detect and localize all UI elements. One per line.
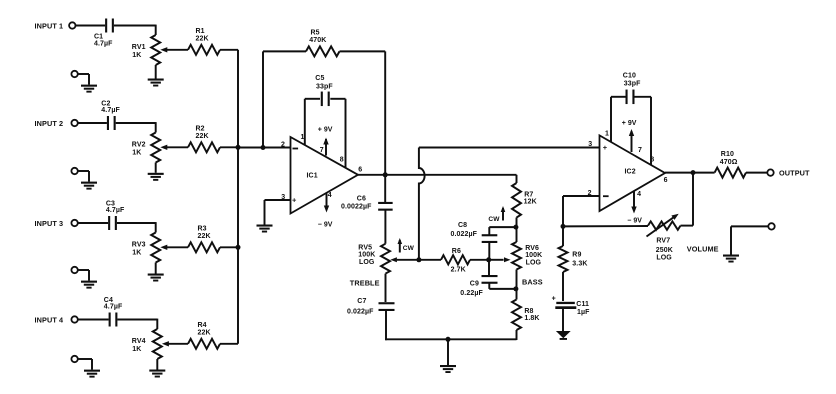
svg-text:+ 9V: + 9V [318, 127, 333, 134]
svg-text:R4: R4 [198, 322, 207, 329]
capacitor C6 0.0022uF [384, 175, 386, 203]
svg-text:4.7µF: 4.7µF [94, 41, 113, 48]
wire [78, 122, 107, 124]
svg-text:22K: 22K [198, 233, 211, 240]
svg-text:3: 3 [588, 141, 592, 148]
capacitor C9 0.22uF [488, 260, 490, 276]
output terminal [767, 169, 773, 175]
node B [513, 286, 518, 291]
svg-text:RV7: RV7 [656, 238, 670, 245]
svg-text:INPUT 1: INPUT 1 [35, 22, 64, 31]
ground terminal [71, 356, 77, 362]
svg-text:− 9V: − 9V [318, 222, 333, 229]
wire summing bus [237, 50, 239, 344]
resistor R9 3.3K [562, 226, 564, 246]
capacitor C5 33pF [305, 98, 320, 100]
svg-text:OUTPUT: OUTPUT [779, 169, 810, 178]
ground terminal output [768, 223, 774, 229]
supply -9V IC2 [633, 192, 635, 212]
node A [513, 225, 518, 230]
svg-text:7: 7 [638, 147, 642, 154]
svg-text:1K: 1K [132, 52, 141, 59]
svg-text:R2: R2 [196, 125, 205, 132]
potentiometer RV2 1K [151, 133, 160, 163]
ground [447, 339, 449, 365]
svg-text:BASS: BASS [522, 277, 543, 286]
resistor R2 22K [188, 142, 220, 152]
wire IC2 output [665, 172, 715, 174]
svg-text:LOG: LOG [656, 255, 672, 262]
capacitor C3 [108, 216, 110, 230]
ground terminal [71, 267, 77, 273]
capacitor C1 [105, 19, 107, 33]
svg-text:C5: C5 [315, 75, 324, 82]
minus sign IC2 [603, 195, 609, 197]
svg-text:RV5: RV5 [358, 244, 372, 251]
svg-text:0.22µF: 0.22µF [460, 290, 483, 297]
resistor R7 12K [516, 175, 518, 183]
svg-text:R5: R5 [311, 30, 320, 37]
svg-text:470Ω: 470Ω [720, 159, 738, 166]
svg-text:C7: C7 [357, 298, 366, 305]
svg-text:33pF: 33pF [316, 83, 333, 90]
svg-text:8: 8 [340, 157, 344, 164]
wire bottom bus [385, 338, 516, 340]
potentiometer RV7 250K LOG volume [563, 225, 648, 227]
wire [78, 222, 108, 224]
svg-text:C11: C11 [576, 301, 589, 308]
capacitor C7 0.022uF [385, 274, 387, 302]
ground [148, 173, 164, 175]
cw arrow RV5 [399, 240, 401, 253]
ground [257, 225, 273, 227]
wire to IC1 pin 2 [238, 147, 291, 149]
resistor R6 2.7K [419, 259, 441, 261]
wire [114, 25, 156, 27]
svg-text:+ 9V: + 9V [622, 120, 637, 127]
potentiometer RV5 100K LOG treble [381, 244, 390, 274]
svg-text:1: 1 [605, 131, 609, 138]
svg-text:LOG: LOG [359, 259, 375, 266]
supply -9V IC1 [326, 194, 328, 211]
svg-text:− 9V: − 9V [627, 218, 642, 225]
svg-text:6: 6 [664, 177, 668, 184]
svg-text:+: + [603, 143, 608, 152]
svg-text:7: 7 [320, 147, 324, 154]
svg-text:C10: C10 [623, 72, 636, 79]
svg-text:4.7µF: 4.7µF [106, 207, 125, 214]
svg-text:22K: 22K [196, 133, 209, 140]
svg-text:1.8K: 1.8K [524, 315, 539, 322]
svg-text:TREBLE: TREBLE [350, 278, 380, 287]
ground terminal [71, 168, 77, 174]
svg-text:RV6: RV6 [525, 245, 539, 252]
svg-text:R1: R1 [196, 28, 205, 35]
potentiometer RV1 1K [151, 35, 160, 65]
wire [76, 25, 106, 27]
capacitor C8 0.022uF [489, 226, 516, 228]
svg-text:0.022µF: 0.022µF [451, 231, 478, 238]
svg-text:R7: R7 [524, 192, 533, 199]
svg-text:R10: R10 [721, 151, 734, 158]
svg-text:22K: 22K [198, 329, 211, 336]
minus sign IC1 [293, 148, 299, 150]
svg-text:CW: CW [403, 245, 415, 252]
ground [149, 370, 165, 372]
svg-text:4.7µF: 4.7µF [104, 304, 123, 311]
svg-text:C1: C1 [94, 34, 103, 41]
svg-text:IC2: IC2 [625, 169, 636, 176]
wire treble wiper to IC2 pin 3 [419, 147, 600, 149]
capacitor C2 [107, 116, 109, 130]
op-amp IC1 [291, 137, 359, 214]
svg-text:12K: 12K [524, 199, 537, 206]
svg-text:INPUT 3: INPUT 3 [35, 219, 64, 228]
resistor R5 470K [262, 51, 264, 147]
resistor R3 22K [188, 242, 220, 252]
potentiometer RV6 100K LOG bass [516, 227, 518, 242]
svg-text:0.0022µF: 0.0022µF [341, 204, 372, 211]
svg-text:4.7µF: 4.7µF [101, 107, 120, 114]
svg-text:100K: 100K [525, 252, 542, 259]
ground [148, 274, 164, 276]
svg-text:C8: C8 [458, 222, 467, 229]
svg-text:R9: R9 [572, 251, 581, 258]
capacitor C10 33pF [611, 96, 626, 98]
svg-text:22K: 22K [196, 35, 209, 42]
ground [723, 255, 739, 257]
wire IC1 pin 3 [265, 199, 291, 201]
svg-text:RV4: RV4 [132, 338, 146, 345]
ground [148, 79, 164, 81]
resistor R10 470 [715, 168, 746, 178]
svg-text:3.3K: 3.3K [572, 261, 587, 268]
svg-text:C6: C6 [357, 195, 366, 202]
potentiometer RV4 1K [153, 329, 162, 359]
wire [117, 319, 157, 321]
svg-text:2: 2 [281, 141, 285, 148]
svg-text:2.7K: 2.7K [451, 266, 466, 273]
svg-text:100K: 100K [358, 252, 375, 259]
ground terminal [71, 71, 77, 77]
resistor R4 22K [188, 339, 220, 349]
svg-text:INPUT 4: INPUT 4 [35, 316, 65, 325]
svg-text:+: + [292, 195, 297, 204]
supply +9V IC2 [631, 131, 633, 152]
wire [78, 319, 109, 321]
svg-text:250K: 250K [656, 247, 673, 254]
node wiper junction [486, 257, 491, 262]
ground [556, 331, 571, 338]
ground [84, 370, 100, 372]
svg-text:4: 4 [328, 192, 332, 199]
svg-text:INPUT 2: INPUT 2 [35, 119, 64, 128]
svg-text:CW: CW [488, 216, 500, 223]
supply +9V IC1 [325, 139, 327, 156]
svg-text:LOG: LOG [526, 260, 542, 267]
capacitor C4 [109, 313, 111, 327]
resistor R1 22K [188, 45, 220, 55]
svg-text:1µF: 1µF [577, 309, 590, 316]
svg-text:470K: 470K [309, 37, 326, 44]
potentiometer RV3 1K [151, 233, 160, 263]
svg-text:RV1: RV1 [132, 44, 146, 51]
capacitor C11 1uF [556, 302, 575, 304]
svg-text:R3: R3 [198, 225, 207, 232]
cw arrow RV6 [502, 208, 504, 221]
svg-text:1K: 1K [132, 250, 141, 257]
op-amp IC2 [600, 135, 666, 211]
svg-text:R6: R6 [452, 248, 461, 255]
wire [117, 222, 156, 224]
wire IC2 pin 2 [563, 195, 600, 197]
svg-text:4: 4 [637, 191, 641, 198]
svg-text:C9: C9 [470, 281, 479, 288]
svg-text:+: + [552, 296, 556, 303]
ground [81, 281, 97, 283]
svg-text:VOLUME: VOLUME [687, 244, 719, 253]
svg-text:RV2: RV2 [132, 141, 146, 148]
svg-text:33pF: 33pF [624, 80, 641, 87]
ground [81, 85, 97, 87]
ground [81, 182, 97, 184]
wire [116, 122, 156, 124]
resistor R8 1.8K [516, 289, 518, 300]
svg-text:1K: 1K [132, 150, 141, 157]
wire IC1 output [358, 174, 385, 176]
svg-text:RV3: RV3 [132, 241, 146, 248]
svg-text:IC1: IC1 [307, 173, 318, 180]
svg-text:1K: 1K [132, 346, 141, 353]
svg-text:0.022µF: 0.022µF [347, 309, 374, 316]
svg-text:6: 6 [358, 167, 362, 174]
